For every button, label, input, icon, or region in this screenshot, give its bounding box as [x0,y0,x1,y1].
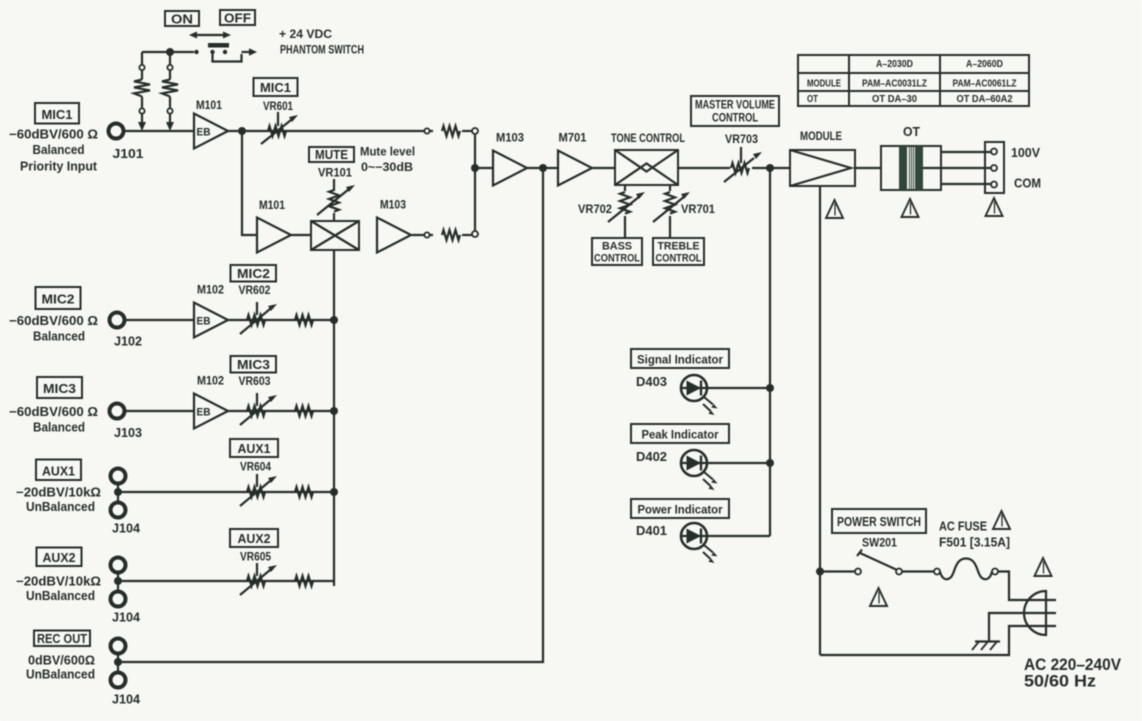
svg-text:0dBV/600Ω: 0dBV/600Ω [28,654,95,668]
svg-text:M101: M101 [259,200,286,212]
svg-text:MODULE: MODULE [800,129,842,143]
svg-text:VR702: VR702 [578,204,612,216]
svg-text:MIC3: MIC3 [237,358,270,372]
svg-text:AUX2: AUX2 [43,551,76,565]
svg-text:PHANTOM SWITCH: PHANTOM SWITCH [280,45,364,57]
svg-text:COM: COM [1014,176,1041,191]
svg-text:J104: J104 [112,522,140,536]
svg-text:M701: M701 [559,133,588,145]
svg-text:SW201: SW201 [862,538,898,550]
svg-text:OT: OT [807,94,818,105]
svg-text:TREBLE: TREBLE [658,241,700,253]
svg-text:MIC1: MIC1 [260,81,291,95]
svg-text:AUX1: AUX1 [42,465,75,479]
svg-text:VR703: VR703 [725,134,758,146]
svg-text:−60dBV/600 Ω: −60dBV/600 Ω [9,314,98,328]
svg-text:−20dBV/10kΩ: −20dBV/10kΩ [16,575,101,589]
svg-text:Mute level: Mute level [360,147,415,159]
svg-text:AC 220–240V: AC 220–240V [1024,656,1121,674]
svg-text:PAM–AC0031LZ: PAM–AC0031LZ [862,79,927,90]
svg-text:Balanced: Balanced [33,330,85,344]
svg-text:MASTER VOLUME: MASTER VOLUME [695,100,775,112]
svg-text:OT DA–30: OT DA–30 [872,94,917,105]
svg-text:MIC2: MIC2 [237,267,270,281]
svg-text:VR601: VR601 [263,101,294,113]
svg-text:J102: J102 [114,335,142,349]
svg-text:+ 24 VDC: + 24 VDC [279,29,332,41]
svg-text:MIC1: MIC1 [42,108,73,122]
svg-text:PAM–AC0061LZ: PAM–AC0061LZ [953,79,1017,90]
svg-text:UnBalanced: UnBalanced [26,589,95,603]
svg-text:Signal Indicator: Signal Indicator [637,353,723,367]
svg-text:J103: J103 [114,426,142,440]
svg-text:EB: EB [197,127,211,139]
svg-text:CONTROL: CONTROL [656,253,702,265]
svg-text:MIC3: MIC3 [43,382,76,396]
svg-text:AUX2: AUX2 [238,532,271,546]
svg-text:J101: J101 [113,147,144,161]
svg-text:A–2060D: A–2060D [966,59,1003,70]
svg-text:−60dBV/600 Ω: −60dBV/600 Ω [9,405,98,419]
svg-text:EB: EB [197,407,211,419]
svg-text:UnBalanced: UnBalanced [26,668,95,682]
svg-text:M102: M102 [197,285,224,297]
svg-text:REC OUT: REC OUT [37,632,87,646]
svg-text:J104: J104 [112,693,140,707]
svg-text:−60dBV/600 Ω: −60dBV/600 Ω [9,128,98,142]
svg-text:F501 [3.15A]: F501 [3.15A] [939,536,1010,550]
svg-text:AC FUSE: AC FUSE [939,520,987,534]
svg-text:AUX1: AUX1 [238,442,271,456]
svg-text:ON: ON [171,12,193,27]
svg-text:EB: EB [197,316,211,328]
svg-text:D401: D401 [636,523,667,538]
svg-text:M103: M103 [380,200,406,212]
svg-text:OFF: OFF [224,11,251,26]
svg-text:VR604: VR604 [240,462,272,474]
svg-text:Peak Indicator: Peak Indicator [642,428,719,442]
svg-text:TONE CONTROL: TONE CONTROL [611,131,685,145]
svg-text:M103: M103 [496,133,524,145]
svg-text:POWER SWITCH: POWER SWITCH [837,515,921,529]
svg-text:100V: 100V [1011,145,1040,160]
svg-text:Priority Input: Priority Input [20,160,98,174]
svg-text:A–2030D: A–2030D [876,59,913,70]
svg-text:50/60 Hz: 50/60 Hz [1024,673,1096,691]
svg-text:Balanced: Balanced [33,143,85,157]
svg-text:MIC2: MIC2 [42,293,75,307]
svg-text:CONTROL: CONTROL [594,253,640,265]
svg-text:Balanced: Balanced [33,421,85,435]
svg-text:0~−30dB: 0~−30dB [361,162,413,174]
svg-text:UnBalanced: UnBalanced [26,500,95,514]
svg-text:MODULE: MODULE [807,79,841,90]
svg-text:OT: OT [903,124,920,139]
svg-text:−20dBV/10kΩ: −20dBV/10kΩ [16,486,101,500]
svg-text:MUTE: MUTE [315,148,348,162]
svg-text:VR605: VR605 [240,552,272,564]
svg-text:VR603: VR603 [239,376,271,388]
svg-text:VR701: VR701 [681,204,716,216]
svg-text:OT DA–60A2: OT DA–60A2 [957,94,1013,105]
svg-text:D403: D403 [636,374,667,389]
svg-text:Power Indicator: Power Indicator [638,503,723,517]
svg-text:D402: D402 [636,449,667,464]
svg-text:M102: M102 [197,376,224,388]
svg-text:CONTROL: CONTROL [712,113,758,125]
svg-text:J104: J104 [112,611,140,625]
svg-text:VR602: VR602 [239,285,271,297]
svg-text:VR101: VR101 [318,168,353,180]
svg-text:M101: M101 [196,100,223,112]
svg-text:BASS: BASS [602,241,632,253]
